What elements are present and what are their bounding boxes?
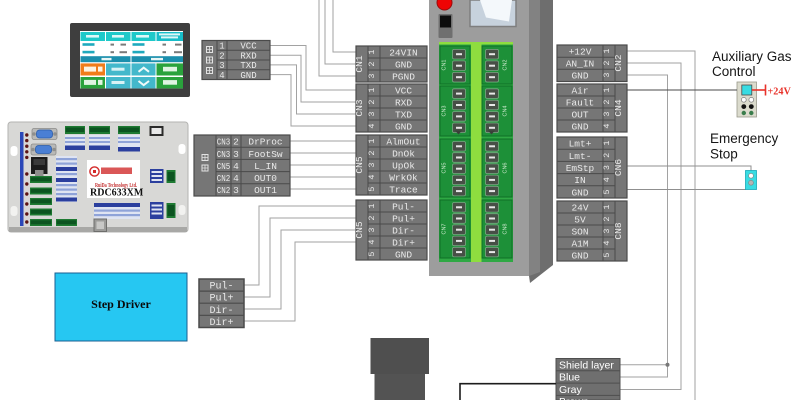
svg-text:2: 2: [367, 215, 377, 220]
jumper label area B: [89, 135, 110, 150]
svg-text:RDC633XM: RDC633XM: [90, 188, 144, 199]
svg-text:Step Driver: Step Driver: [91, 297, 151, 311]
svg-text:1: 1: [602, 140, 612, 145]
svg-text:CN1: CN1: [354, 55, 365, 72]
svg-text:Gray: Gray: [559, 384, 583, 396]
svg-text:CN5: CN5: [354, 156, 365, 173]
svg-text:3: 3: [367, 227, 377, 232]
svg-text:+12V: +12V: [569, 47, 592, 58]
wire mainboard DrProc: [290, 140, 356, 142]
svg-text:CN2: CN2: [217, 185, 231, 196]
svg-text:2: 2: [602, 60, 612, 65]
logo ring: [90, 167, 99, 176]
svg-text:3: 3: [602, 72, 612, 77]
wire CN6 EmStp to emergency stop: [627, 166, 751, 171]
controller board RDC633XM: [8, 122, 188, 232]
svg-text:CN5: CN5: [217, 161, 231, 172]
wire mainboard OUT1: [290, 188, 356, 190]
DB9 connector 1: [32, 129, 57, 140]
pin table mainboard: [194, 135, 290, 196]
svg-text:Air: Air: [571, 85, 588, 96]
pin table CN7 motor: [354, 200, 427, 260]
svg-text:+24V: +24V: [768, 87, 792, 98]
svg-text:Dir+: Dir+: [209, 317, 233, 329]
svg-text:24VIN: 24VIN: [389, 47, 418, 58]
terminal block CN1 on PCB: [440, 46, 470, 84]
svg-text:1: 1: [602, 48, 612, 53]
svg-text:VCC: VCC: [240, 42, 257, 52]
svg-text:4: 4: [367, 123, 377, 128]
svg-text:2: 2: [219, 52, 224, 62]
pin table CN2: [557, 45, 627, 82]
svg-text:Dir+: Dir+: [392, 237, 415, 248]
svg-text:1: 1: [367, 203, 377, 208]
svg-text:AlmOut: AlmOut: [386, 136, 420, 147]
svg-text:GND: GND: [240, 71, 256, 81]
terminal block CN3 on PCB: [440, 86, 470, 136]
svg-text:GND: GND: [571, 250, 588, 261]
USB B port: [150, 126, 164, 136]
svg-text:CN2: CN2: [613, 54, 624, 71]
pin table step driver pulses: [199, 279, 244, 329]
svg-text:CN8: CN8: [613, 222, 624, 239]
wire CN2 AN_IN to Gray: [620, 63, 681, 390]
svg-text:Pul+: Pul+: [209, 293, 233, 305]
svg-text:4: 4: [233, 161, 239, 172]
svg-text:Fault: Fault: [566, 97, 595, 108]
svg-text:CN6: CN6: [613, 159, 624, 176]
svg-text:3: 3: [367, 73, 377, 78]
mounting ear left lower: [11, 206, 18, 216]
svg-text:1: 1: [219, 42, 224, 52]
svg-text:Lmt+: Lmt+: [569, 139, 592, 150]
wire power 24VIN from top: [333, 0, 356, 52]
laser head sensor: [371, 338, 430, 400]
svg-text:SON: SON: [571, 226, 588, 237]
pin table CN3: [354, 84, 427, 132]
svg-text:Dir-: Dir-: [209, 305, 233, 317]
svg-text:CN3: CN3: [217, 137, 231, 148]
svg-text:GND: GND: [571, 121, 588, 132]
svg-text:CN2: CN2: [503, 59, 509, 70]
terminal block CN8 on PCB: [482, 200, 512, 258]
IO extension box: [429, 0, 553, 283]
svg-text:L_IN: L_IN: [254, 161, 277, 172]
svg-text:3: 3: [233, 185, 239, 196]
mounting ear left: [11, 146, 18, 156]
terminal block CN4 on PCB: [482, 86, 512, 136]
svg-text:CN6: CN6: [503, 162, 509, 173]
svg-text:1: 1: [602, 87, 612, 92]
svg-text:4: 4: [367, 174, 377, 179]
svg-text:TXD: TXD: [240, 61, 256, 71]
svg-text:WrkOk: WrkOk: [389, 172, 418, 183]
pin table CN4: [557, 84, 627, 132]
svg-text:4: 4: [367, 239, 377, 244]
svg-text:1: 1: [602, 204, 612, 209]
pin table touchscreen: [202, 41, 270, 82]
jumper label area C: [118, 135, 140, 152]
junction dot shield: [666, 363, 670, 367]
wire step driver Pul-: [244, 206, 356, 285]
terminal strip top C: [118, 126, 140, 134]
green PCB: [439, 42, 513, 262]
svg-text:CN5: CN5: [354, 221, 365, 238]
box side panel 3d: [529, 0, 553, 283]
svg-text:Pul-: Pul-: [209, 281, 233, 293]
HMI touch screen panel: [70, 23, 190, 97]
right blue module upper: [150, 169, 164, 183]
+24V red wire: [752, 85, 766, 96]
svg-text:OUT1: OUT1: [254, 185, 277, 196]
svg-text:24V: 24V: [571, 202, 588, 213]
svg-text:4: 4: [602, 240, 612, 245]
wire CN4 Air to aux gas valve: [627, 89, 737, 91]
svg-text:3: 3: [602, 111, 612, 116]
svg-text:4: 4: [219, 71, 224, 81]
svg-text:PGND: PGND: [392, 71, 415, 82]
power switch: [439, 14, 453, 38]
right green block upper: [167, 170, 176, 183]
svg-text:Control: Control: [712, 64, 756, 79]
wire mainboard OUT0: [290, 176, 356, 178]
blue strip with LEDs: [20, 132, 24, 226]
svg-text:RXD: RXD: [395, 97, 412, 108]
pin table CN5 io: [354, 135, 427, 195]
svg-text:3: 3: [219, 61, 224, 71]
right blue module lower: [150, 202, 164, 219]
svg-text:5: 5: [602, 189, 612, 194]
pin table CN8: [557, 201, 627, 261]
step driver box: [55, 273, 187, 341]
USB A connector bottom: [94, 219, 107, 232]
terminal block CN7 on PCB: [440, 200, 470, 258]
box main face: [429, 0, 529, 276]
wire touchscreen VCC to HMI CN3: [270, 46, 356, 91]
svg-text:EmStp: EmStp: [566, 163, 595, 174]
terminal strip top B: [89, 126, 110, 134]
svg-text:3: 3: [233, 149, 239, 160]
DB9 connector 2: [31, 144, 56, 155]
svg-text:Trace: Trace: [389, 184, 418, 195]
svg-text:2: 2: [233, 137, 239, 148]
white product label: [87, 160, 140, 198]
svg-text:OUT0: OUT0: [254, 173, 277, 184]
ethernet RJ45: [31, 157, 48, 174]
pin table CN6: [557, 137, 627, 198]
wire power PGND from top: [319, 0, 356, 76]
display window: [470, 0, 516, 27]
svg-text:TXD: TXD: [395, 109, 412, 120]
svg-text:UpOk: UpOk: [392, 160, 415, 171]
svg-text:2: 2: [367, 61, 377, 66]
left terminal blocks column: [30, 176, 77, 226]
wire touchscreen RXD to HMI CN3: [270, 55, 356, 102]
svg-text:Brown: Brown: [559, 396, 589, 400]
svg-text:CN2: CN2: [217, 173, 231, 184]
right green block lower: [167, 203, 176, 218]
aux gas valve component: [737, 82, 757, 117]
svg-text:CN3: CN3: [442, 105, 448, 116]
svg-text:FootSw: FootSw: [248, 149, 283, 160]
wire CN6 GND to emergency stop: [627, 189, 746, 191]
terminal block CN2 on PCB: [482, 46, 512, 84]
svg-text:Dir-: Dir-: [392, 225, 415, 236]
svg-text:IN: IN: [574, 175, 585, 186]
svg-text:Pul-: Pul-: [392, 201, 415, 212]
svg-text:Lmt-: Lmt-: [569, 151, 592, 162]
svg-text:Emergency: Emergency: [710, 131, 779, 146]
svg-text:3: 3: [367, 111, 377, 116]
svg-text:3: 3: [367, 162, 377, 167]
jumper label area A: [65, 135, 85, 150]
svg-text:Pul+: Pul+: [392, 213, 415, 224]
svg-text:2: 2: [602, 153, 612, 158]
svg-text:CN3: CN3: [354, 99, 365, 116]
svg-text:GND: GND: [395, 121, 412, 132]
svg-text:DrProc: DrProc: [248, 137, 283, 148]
svg-text:Shield layer: Shield layer: [559, 359, 614, 371]
terminal block CN5 on PCB: [440, 139, 470, 197]
svg-text:CN7: CN7: [442, 223, 448, 234]
svg-text:CN4: CN4: [613, 99, 624, 116]
svg-text:GND: GND: [395, 59, 412, 70]
svg-text:GND: GND: [571, 71, 588, 82]
svg-text:Blue: Blue: [559, 372, 580, 384]
svg-text:VCC: VCC: [395, 85, 412, 96]
svg-text:CN5: CN5: [442, 162, 448, 173]
svg-text:GND: GND: [571, 187, 588, 198]
svg-text:Stop: Stop: [710, 147, 738, 162]
svg-text:4: 4: [602, 123, 612, 128]
wire mainboard FootSw: [290, 152, 356, 154]
svg-text:3: 3: [602, 165, 612, 170]
svg-text:DnOk: DnOk: [392, 148, 415, 159]
svg-text:A1M: A1M: [571, 238, 588, 249]
svg-text:1: 1: [367, 87, 377, 92]
svg-text:GND: GND: [395, 249, 412, 260]
svg-text:2: 2: [602, 216, 612, 221]
wire step driver Dir+: [244, 242, 356, 321]
svg-text:CN1: CN1: [442, 59, 448, 70]
svg-text:Auxiliary Gas: Auxiliary Gas: [712, 49, 792, 64]
svg-text:2: 2: [367, 150, 377, 155]
wire black laser head to table: [460, 384, 556, 400]
pin table CN1: [354, 46, 427, 82]
svg-text:3: 3: [602, 228, 612, 233]
wire touchscreen GND to HMI CN3: [270, 75, 356, 126]
svg-text:4: 4: [602, 177, 612, 182]
red button: [437, 0, 452, 10]
svg-text:1: 1: [367, 49, 377, 54]
mounting ear right: [179, 144, 186, 154]
wire CN2 GND to Blue: [620, 75, 668, 377]
wire touchscreen TXD to HMI CN3: [270, 65, 356, 114]
wire step driver Pul+: [244, 218, 356, 297]
svg-text:AN_IN: AN_IN: [566, 59, 595, 70]
svg-text:CN8: CN8: [503, 223, 509, 234]
svg-text:OUT: OUT: [571, 109, 588, 120]
wire power GND from top: [325, 0, 356, 64]
terminal block CN6 on PCB: [482, 139, 512, 197]
wire color table: [556, 359, 620, 400]
svg-text:2: 2: [367, 99, 377, 104]
svg-text:2: 2: [602, 99, 612, 104]
emergency stop switch: [746, 171, 757, 190]
svg-text:5: 5: [367, 251, 377, 256]
svg-text:CN3: CN3: [217, 149, 231, 160]
svg-text:1: 1: [367, 138, 377, 143]
terminal strip top A: [65, 126, 85, 134]
svg-text:5: 5: [602, 252, 612, 257]
wire mainboard L_IN: [290, 164, 356, 166]
mounting ear right lower: [179, 205, 186, 215]
wire CN2 +12V down: [627, 51, 695, 400]
middle jumper matrix: [56, 156, 77, 202]
wire step driver Dir-: [244, 230, 356, 309]
svg-text:4: 4: [233, 173, 239, 184]
bottom jumper matrix: [94, 203, 140, 219]
svg-text:5V: 5V: [574, 214, 586, 225]
svg-text:CN4: CN4: [503, 105, 509, 116]
svg-text:5: 5: [367, 186, 377, 191]
svg-text:RXD: RXD: [240, 52, 256, 62]
wire branch to Shield layer: [620, 364, 668, 366]
